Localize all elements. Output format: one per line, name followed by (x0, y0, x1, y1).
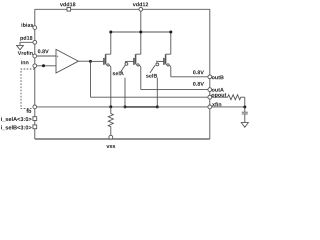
label vss (106, 145, 115, 148)
wire outA line (141, 89, 210, 91)
transistor M2 stubs (136, 54, 141, 67)
wire M3 drain (170, 67, 172, 77)
pin outB (208, 75, 212, 79)
node fb line at M1 drain (109, 105, 112, 108)
switch selA wire to gate (125, 60, 133, 62)
pin pd18 (33, 40, 37, 44)
node inn wire dot (42, 64, 45, 67)
pin i_selA square (33, 117, 37, 121)
label + (57, 56, 59, 58)
transistor M1 bulk bubble (107, 64, 109, 66)
op-amp U1 (56, 49, 78, 73)
switch selB bottom wire (156, 78, 158, 107)
resistor R1 fb-vss (108, 107, 113, 135)
wire M1 drain (110, 67, 112, 107)
wire M1 source drop (110, 32, 112, 54)
transistor M3 bulk bubble (167, 64, 169, 66)
wire mirror rail (111, 31, 171, 33)
wire M1 gate from op-amp (91, 60, 104, 62)
switch selA tick (124, 61, 126, 62)
switch selB tick (156, 61, 158, 63)
label pd18 (20, 36, 32, 41)
label inn (21, 60, 28, 64)
node op-amp output junction (89, 60, 92, 63)
wire outB line (171, 76, 210, 78)
label ibias (22, 23, 34, 27)
wire output down to opout line (90, 61, 92, 97)
wire vdd12 drop / M2 source (140, 9, 142, 54)
switch selA lever (120, 65, 125, 73)
pin fb (33, 105, 37, 109)
label fb (26, 109, 31, 113)
label opout (212, 93, 227, 98)
wire fb line (35, 106, 210, 108)
label selB (146, 74, 157, 78)
label 0.8V (193, 82, 204, 86)
transistor M1 stubs (106, 54, 111, 67)
pin vdd18 square (67, 8, 71, 12)
pin outA (208, 88, 212, 92)
dashed feedback box (21, 69, 35, 109)
label i_selB&lt;3:0&gt; (1, 125, 32, 130)
resistor R2 opout (210, 95, 245, 100)
transistor M3 gate/channel bars (164, 54, 166, 65)
wire left border with pins (34, 9, 36, 139)
label vdd12 (133, 2, 148, 6)
node selB to fb line (156, 105, 159, 108)
transistor M2 bulk bubble (137, 64, 139, 66)
wire R2 down to cap node (244, 97, 246, 107)
switch selA bottom wire (124, 78, 126, 107)
node selA to fb line (124, 105, 127, 108)
switch selB wire to gate (157, 60, 164, 62)
label outB (212, 76, 224, 80)
wire op-amp output (78, 60, 90, 62)
wire xfin extension (212, 106, 245, 108)
node rail dot M1 (109, 31, 112, 34)
capacitor C1 (242, 107, 248, 123)
node rail dot M2 (139, 31, 142, 34)
pin inn (33, 64, 37, 68)
wire M2 drain (140, 67, 142, 90)
pin vdd12 (139, 7, 143, 11)
transistor M3 stubs (166, 54, 171, 67)
transistor M1 gate/channel bars (104, 54, 106, 65)
ground arrow pd18 (17, 45, 24, 49)
wire opout line (91, 96, 210, 98)
wire top rail vdd (35, 8, 210, 10)
label 0.8V (38, 49, 49, 53)
pin vss (109, 135, 113, 139)
transistor M2 gate/channel bars (134, 54, 136, 65)
switch selB terminal circle (156, 63, 159, 66)
pin i_selB square (33, 125, 37, 129)
label outA (212, 88, 224, 92)
ground arrow right (241, 123, 248, 128)
pin ibias (33, 26, 37, 30)
label vdd18 (60, 2, 75, 6)
wire pd18 to ground (20, 42, 35, 45)
wire bottom vss rail (35, 138, 210, 140)
pin opout (208, 95, 212, 99)
label selA (113, 71, 124, 75)
switch selA terminal circle (125, 63, 128, 66)
label Vrefin (18, 51, 33, 55)
wire right border with pins (209, 9, 211, 139)
pin Vrefin (33, 54, 37, 58)
node rail dot M3 (169, 31, 172, 34)
switch selB lever (150, 65, 155, 73)
label i_selA&lt;3:0&gt; (1, 117, 32, 122)
wire fb line bold segment between switch taps (125, 106, 157, 108)
wire M3 source drop (170, 32, 172, 54)
label 0.8V (193, 70, 204, 74)
node cap junction (243, 106, 246, 109)
wire Vrefin to + input (35, 55, 56, 57)
label xfin (212, 102, 221, 106)
wire inn to - input (35, 65, 56, 67)
pin xfin (208, 105, 212, 109)
